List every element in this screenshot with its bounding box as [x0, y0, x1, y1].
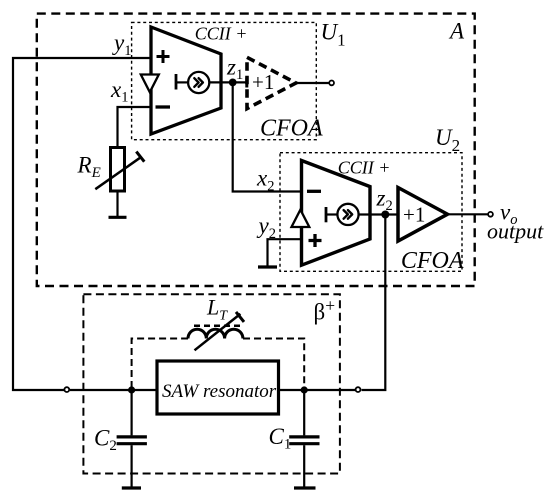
U1 buffer input bar — [245, 78, 248, 88]
RE arrow — [95, 157, 141, 189]
node right port terminal — [356, 387, 361, 392]
node vo terminal — [488, 212, 493, 217]
node junction right — [301, 386, 308, 393]
svg-text:output: output — [487, 219, 544, 244]
wire y2 — [268, 239, 302, 265]
svg-text:A: A — [448, 18, 465, 43]
U1 follower triangle — [141, 75, 159, 93]
U2 minus sign — [307, 190, 321, 193]
ground under C2 — [122, 486, 141, 489]
node z2 — [381, 211, 389, 219]
capacitor C2 — [131, 390, 133, 435]
wire U1 buffer out — [296, 82, 329, 84]
U1 current mirror circle — [188, 72, 209, 93]
wire U2 out — [448, 213, 489, 215]
capacitor C1 — [303, 390, 305, 435]
ground under RE — [109, 216, 127, 219]
wire z2 down to right port — [362, 218, 386, 390]
U2 current mirror circle — [337, 204, 358, 225]
op-amp U2 CFOA dotted box — [280, 153, 462, 272]
U2 follower triangle — [292, 210, 310, 227]
op-amp U1 CCII+ trapezoid — [151, 27, 221, 134]
U1 current mirror input bar — [175, 74, 178, 90]
wire x1 — [118, 107, 152, 148]
wire y1 feedback left — [13, 58, 151, 390]
U2 buffer triangle solid — [398, 188, 448, 242]
LT arrow — [195, 314, 241, 350]
wire U1 z out — [209, 81, 246, 83]
node z1 — [229, 79, 237, 87]
wire LT dashed parallel path — [132, 339, 188, 389]
node junction left — [128, 386, 135, 393]
wire U2 z out — [359, 213, 397, 215]
op-amp U1 CFOA dotted box — [132, 22, 317, 139]
LT core dashed line — [194, 325, 242, 328]
ground under C1 — [294, 486, 316, 489]
wire left port to SAW — [70, 389, 157, 391]
op-amp U2 CCII+ trapezoid — [302, 161, 371, 266]
wire right port to SAW — [279, 389, 356, 391]
svg-text:SAW resonator: SAW resonator — [162, 381, 277, 402]
ground under y2 — [258, 265, 277, 268]
svg-text:CCII +: CCII + — [338, 157, 391, 177]
U2 current mirror input bar — [325, 207, 328, 222]
svg-text:+1: +1 — [252, 70, 274, 94]
svg-text:CFOA: CFOA — [260, 116, 323, 142]
SAW resonator box — [157, 361, 279, 414]
U2 plus sign — [309, 234, 322, 247]
box A (outer dashed) — [37, 14, 475, 286]
resistor RE — [111, 148, 125, 192]
node U1 out terminal — [329, 81, 334, 86]
wire RE to ground — [116, 191, 118, 216]
U1 buffer dashed triangle — [247, 57, 296, 108]
svg-text:CCII +: CCII + — [195, 23, 248, 43]
box beta+ (feedback dashed) — [83, 294, 340, 473]
node left port terminal — [64, 387, 69, 392]
svg-text:CFOA: CFOA — [401, 248, 464, 274]
inductor LT coil — [188, 329, 243, 338]
U1 plus sign — [157, 50, 170, 63]
U1 minus sign — [156, 105, 171, 108]
svg-text:+1: +1 — [403, 202, 425, 226]
wire z1 to x2 — [233, 85, 302, 192]
